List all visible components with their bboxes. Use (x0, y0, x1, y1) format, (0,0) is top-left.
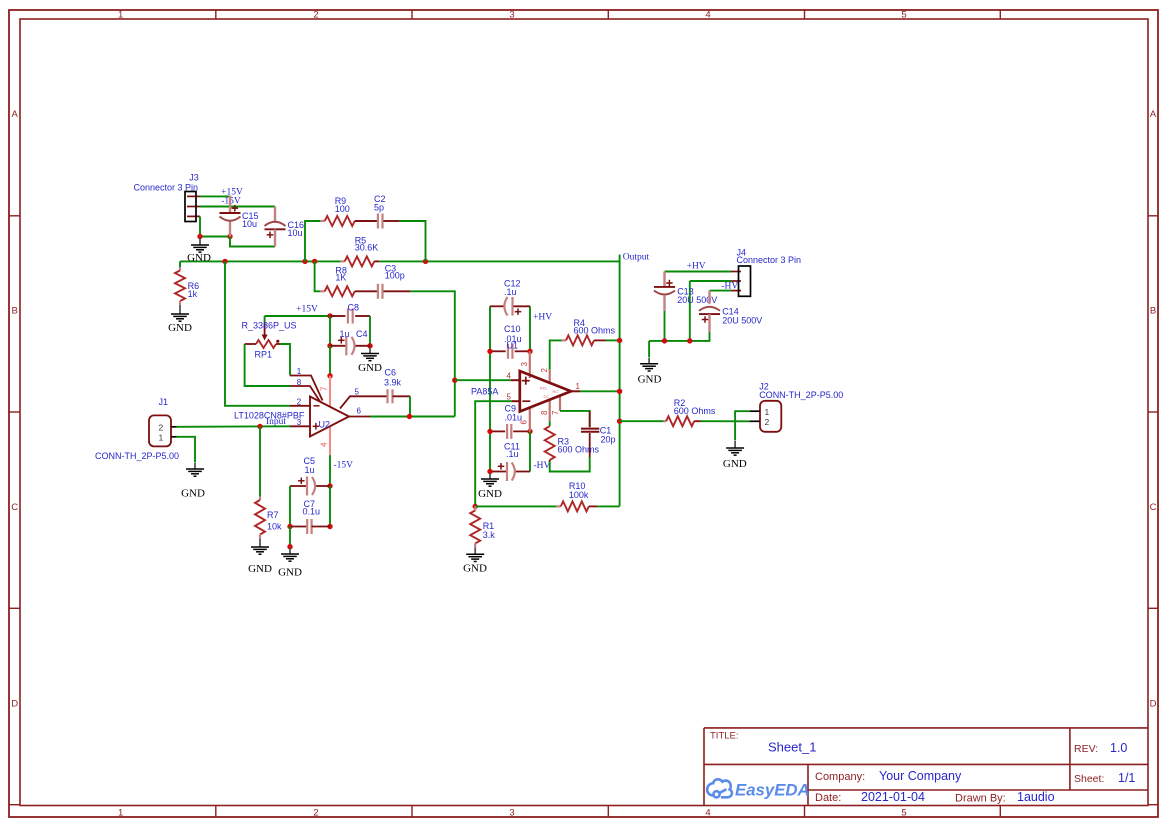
wire output rail vertical (619, 255, 621, 262)
svg-text:RCL: RCL (540, 386, 548, 390)
capacitor C13 plus sign (666, 282, 673, 284)
wire R8 branch vertical (315, 261, 320, 291)
svg-text:1: 1 (118, 807, 123, 818)
capacitor C14 bottom stub (708, 314, 710, 332)
junction C5 right (327, 483, 332, 488)
svg-text:6: 6 (520, 420, 529, 425)
capacitor C3 (377, 284, 379, 299)
svg-text:Sheet:: Sheet: (1074, 773, 1104, 785)
wire ground junction to C15 bottom (200, 236, 230, 238)
svg-text:Company:: Company: (815, 771, 865, 783)
capacitor C14 top stub (708, 291, 710, 304)
svg-text:600 Ohms: 600 Ohms (558, 444, 600, 454)
svg-text:7: 7 (551, 410, 560, 415)
svg-text:2: 2 (159, 423, 164, 433)
capacitor C13 plates (654, 286, 675, 288)
svg-text:D: D (1150, 699, 1157, 710)
capacitor C12 leads (490, 305, 504, 307)
junction U2 pin7 (327, 373, 332, 378)
junction C10 left (487, 349, 492, 354)
svg-text:A: A (1150, 109, 1157, 120)
capacitor C8 (330, 315, 345, 317)
wire C2 right down to rail (399, 221, 425, 261)
capacitor C9 plates (506, 424, 508, 439)
capacitor C15 plates (220, 212, 241, 214)
connector J1 body (149, 415, 171, 446)
capacitor C4 plus sign (338, 339, 345, 341)
resistor R10 (556, 505, 561, 507)
junction C10 right (527, 349, 532, 354)
op-amp U1 pin1 lead (571, 390, 580, 392)
capacitor C5 leads (290, 485, 306, 487)
svg-text:Output: Output (623, 253, 650, 263)
junction output rail at R4 (617, 338, 622, 343)
wire PA85A pin5 down to R1 node (475, 401, 511, 506)
junction above C7 ground (287, 544, 292, 549)
svg-text:R7: R7 (267, 510, 279, 520)
svg-text:D: D (11, 699, 18, 710)
wire output rail to R2 (620, 420, 664, 422)
capacitor C13 top stub (663, 272, 665, 287)
svg-text:5: 5 (355, 387, 360, 396)
junction C7 left (287, 524, 292, 529)
junction C7 right (327, 524, 332, 529)
svg-text:C: C (11, 502, 18, 513)
svg-text:Connector 3 Pin: Connector 3 Pin (133, 183, 198, 193)
op-amp U1 PA85A triangle (520, 371, 571, 412)
op-amp U1 plus mark (522, 380, 530, 382)
svg-text:600 Ohms: 600 Ohms (574, 326, 616, 336)
wire U2 pin4 to -15V stub (329, 455, 331, 486)
ground symbol at C7 (289, 548, 291, 554)
svg-text:20U 500V: 20U 500V (722, 316, 762, 326)
op-amp U2 plus mark (313, 425, 320, 427)
wire U2 output up to PA85A pin4 node (454, 380, 456, 416)
junction PA85A pin4 node (452, 378, 457, 383)
wire J4 pin3 -HV to C14 top (710, 290, 732, 292)
capacitor C14 plus sign (702, 319, 709, 321)
svg-text:-HV: -HV (534, 461, 551, 471)
svg-text:4: 4 (705, 807, 710, 818)
capacitor C7 (290, 526, 307, 528)
svg-text:600 Ohms: 600 Ohms (674, 406, 716, 416)
junction +15V at C8 left (327, 313, 332, 318)
connector J4 body (739, 266, 751, 296)
svg-text:CONN-TH_2P-P5.00: CONN-TH_2P-P5.00 (759, 390, 843, 400)
svg-text:GND: GND (638, 374, 662, 386)
svg-text:Sheet_1: Sheet_1 (768, 740, 816, 755)
svg-text:8: 8 (297, 378, 302, 387)
capacitor C11 plates (506, 462, 508, 481)
op-amp U2 pin4 line (329, 426, 331, 455)
ground symbol at C11 (489, 473, 491, 479)
ground symbol at J3 (199, 238, 201, 245)
svg-text:Connector 3 Pin: Connector 3 Pin (737, 255, 802, 265)
EasyEDA logo cloud icon (707, 779, 732, 797)
capacitor C15 top stub (229, 196, 231, 213)
svg-text:3: 3 (509, 807, 514, 818)
resistor R8 (320, 290, 325, 292)
svg-text:Input: Input (266, 417, 286, 427)
wire C3 right to PA85A pin4 node (410, 291, 455, 380)
capacitor C16 top stub (274, 207, 276, 223)
connector J3 body (185, 192, 196, 222)
svg-text:2021-01-04: 2021-01-04 (861, 790, 925, 804)
op-amp U2 pin3 lead (290, 425, 310, 427)
svg-text:1K: 1K (335, 273, 346, 283)
trimmer RP1 body (245, 343, 256, 345)
svg-text:+HV: +HV (533, 312, 552, 322)
resistor R5 (341, 260, 345, 262)
svg-text:Date:: Date: (815, 792, 841, 804)
svg-text:Your Company: Your Company (879, 769, 962, 783)
wire +15V branch down to U2 pin7 (329, 346, 331, 376)
svg-text:Drawn By:: Drawn By: (955, 793, 1006, 805)
op-amp U2 pin6 lead (349, 416, 370, 418)
svg-text:s: s (532, 372, 534, 376)
svg-text:GND: GND (478, 488, 502, 500)
svg-text:10k: 10k (267, 522, 282, 532)
ground symbol at J2 (734, 441, 736, 448)
capacitor C1 top lead (589, 411, 591, 427)
junction inverting rail to R8 branch (312, 259, 317, 264)
svg-text:3: 3 (520, 362, 529, 367)
capacitor C12 plates (504, 297, 507, 316)
capacitor C6 (386, 389, 388, 403)
ground symbol at R1 (474, 547, 476, 554)
capacitor C1 plates (581, 428, 599, 430)
capacitor C2 (377, 214, 379, 229)
svg-text:2: 2 (313, 807, 318, 818)
wire R1 node to R10 (475, 505, 556, 507)
svg-text:+15V: +15V (296, 305, 318, 315)
wire C6 right down to U2 output (409, 396, 411, 416)
wire R2 to J2 pin2 (701, 420, 750, 422)
capacitor C4 plates (345, 336, 347, 355)
svg-text:PA85A: PA85A (471, 386, 498, 396)
wire U2 output (370, 416, 455, 418)
junction output rail top at C2 right (423, 259, 428, 264)
svg-text:.1u: .1u (506, 449, 519, 459)
junction C9 left (487, 429, 492, 434)
svg-text:+HV: +HV (687, 261, 706, 271)
wire C8 right down to C4 right (369, 316, 371, 346)
wire C14 bottom to ground rail (649, 332, 709, 341)
resistor R4 (562, 339, 567, 341)
svg-text:C6: C6 (385, 367, 397, 377)
op-amp U1 pin5 lead (512, 400, 520, 402)
capacitor C10 leads (490, 350, 506, 352)
wire C15 bottom to C16 bottom (230, 237, 275, 247)
svg-text:7: 7 (320, 386, 329, 391)
svg-text:0.1u: 0.1u (303, 507, 321, 517)
connector J1 pin stubs (171, 426, 177, 428)
wire C13 bottom to ground rail (664, 311, 666, 341)
svg-text:.1u: .1u (504, 287, 517, 297)
svg-text:8: 8 (540, 410, 549, 415)
svg-text:10u: 10u (242, 219, 257, 229)
svg-text:RC: RC (553, 390, 559, 394)
op-amp U2 pin7 line (329, 376, 331, 407)
svg-text:5p: 5p (374, 202, 384, 212)
svg-text:2: 2 (297, 397, 302, 406)
svg-text:GND: GND (248, 563, 272, 575)
wire R7 top (259, 427, 261, 497)
capacitor C4 leads (330, 345, 346, 347)
capacitor C5 plates (306, 477, 308, 496)
op-amp U1 pin4 lead (511, 379, 520, 381)
border column dividers top (215, 10, 217, 19)
junction C11 left (487, 469, 492, 474)
junction U2 output at C6 (407, 414, 412, 419)
svg-text:GND: GND (187, 252, 211, 264)
svg-text:EasyEDA: EasyEDA (735, 781, 810, 800)
svg-text:6: 6 (357, 406, 362, 415)
svg-text:C4: C4 (356, 329, 368, 339)
svg-text:1: 1 (159, 433, 164, 443)
wire U2 pin2 to inverting rail (225, 261, 290, 405)
junction R1 node (473, 504, 478, 509)
wire right HV rail (C12 right down to C10 right) (529, 306, 531, 351)
svg-text:5: 5 (901, 10, 906, 21)
svg-text:B: B (12, 306, 18, 317)
svg-text:1.0: 1.0 (1110, 741, 1127, 755)
junction inverting rail to U2 pin2 branch (222, 259, 227, 264)
svg-text:GND: GND (168, 322, 192, 334)
svg-text:1: 1 (118, 10, 123, 21)
capacitor C5 plus sign (298, 480, 305, 482)
svg-text:1k: 1k (188, 289, 198, 299)
svg-text:J3: J3 (189, 173, 199, 183)
svg-text:C8: C8 (348, 303, 360, 313)
wire C5 right down to C7 right (329, 486, 331, 527)
capacitor C16 plus sign (267, 234, 274, 236)
wire R4 right to output rail (606, 339, 620, 341)
ground symbol at J1 (194, 463, 196, 469)
wire R5 right to output rail (379, 260, 620, 262)
wire to PA85A pin4 (455, 379, 511, 381)
svg-text:GND: GND (723, 458, 747, 470)
junction at C15 bottom (227, 234, 232, 239)
resistor R1 (474, 506, 476, 510)
wire C9 right down to C11 right (529, 431, 531, 471)
svg-text:1u: 1u (340, 329, 350, 339)
svg-text:20U 500V: 20U 500V (677, 295, 717, 305)
junction J1 pin2 to R7 (257, 424, 262, 429)
junction C4 left (327, 343, 332, 348)
wire -15V from J3 pin2 to C16 top (200, 206, 275, 208)
svg-text:1: 1 (576, 382, 581, 391)
wire PA85A pin2 up to R4 left (550, 340, 562, 369)
op-amp U2 triangle (310, 397, 349, 437)
junction output rail at PA85A pin1 (617, 389, 622, 394)
svg-text:2: 2 (313, 10, 318, 21)
capacitor C16 plates (265, 222, 286, 226)
wire +15V rail above RP1 (265, 315, 330, 317)
svg-text:2: 2 (765, 417, 770, 427)
junction ground rail at C13 (662, 338, 667, 343)
svg-text:GND: GND (358, 362, 382, 374)
svg-text:J1: J1 (159, 397, 169, 407)
ground symbol at C4 (369, 348, 371, 354)
svg-text:4: 4 (507, 371, 512, 380)
svg-text:CONN-TH_2P-P5.00: CONN-TH_2P-P5.00 (95, 451, 179, 461)
svg-text:5: 5 (901, 807, 906, 818)
svg-text:3: 3 (509, 10, 514, 21)
svg-text:B: B (1150, 306, 1156, 317)
wire R3 bottom to C1 bottom (550, 457, 590, 472)
border row dividers left (9, 215, 20, 217)
wire PA85A pin7 to C1 top (560, 411, 590, 427)
resistor R3 (545, 426, 555, 460)
capacitor C14 plates (699, 307, 720, 311)
junction inverting rail to R9 branch (302, 259, 307, 264)
resistor R9 (320, 220, 325, 222)
op-amp U1 minus mark (522, 400, 530, 402)
svg-text:1: 1 (297, 367, 302, 376)
wire inverting node rail (R6 top to R5 left) (180, 260, 341, 262)
wire PA85A pin8 to R3 top (549, 421, 551, 426)
junction output rail at R2 (617, 419, 622, 424)
svg-text:1audio: 1audio (1017, 790, 1055, 804)
svg-text:C: C (1150, 502, 1157, 513)
title block outline (704, 728, 1148, 806)
wire J4 pin1 +HV to C13 top (665, 271, 732, 273)
svg-text:GND: GND (181, 487, 205, 499)
svg-text:2: 2 (540, 368, 549, 373)
capacitor C16 bottom stub (274, 229, 276, 246)
svg-text:3.k: 3.k (483, 530, 496, 540)
op-amp U1 pin6 line (529, 408, 531, 432)
op-amp U1 pin7 line (559, 396, 561, 411)
wire +15V from J3 pin1 to C15 top (200, 195, 230, 197)
wire R10 right up output rail (597, 505, 620, 507)
svg-text:1u: 1u (305, 465, 315, 475)
svg-text:4: 4 (320, 442, 329, 447)
wire J1 pin1 to ground (177, 437, 195, 463)
svg-text:RP1: RP1 (255, 349, 273, 359)
ground symbol at R7 (259, 539, 261, 547)
svg-text:-15V: -15V (334, 461, 354, 471)
svg-text:20p: 20p (601, 435, 616, 445)
capacitor C11 plus sign (498, 465, 505, 467)
wire J1 pin2 to U2 pin3 (177, 425, 290, 428)
ground symbol at J4 (648, 358, 650, 364)
svg-text:REV:: REV: (1074, 743, 1098, 755)
svg-text:4: 4 (705, 10, 710, 21)
capacitor C15 bottom stub (229, 222, 231, 237)
capacitor C11 leads (490, 471, 506, 473)
op-amp U1 pin2 line (549, 370, 551, 384)
wire RP1 left to U2 pin8 (245, 344, 290, 386)
resistor R2 (664, 420, 667, 422)
wire R9 branch vertical (305, 221, 320, 261)
wire left HV rail (C12 left down to C11 left) (489, 306, 491, 471)
connector J4 pin stubs (731, 271, 741, 273)
svg-text:A: A (12, 109, 19, 120)
svg-text:C10: C10 (504, 324, 521, 334)
ground symbol below R6 (179, 305, 181, 314)
svg-text:100k: 100k (569, 490, 589, 500)
op-amp U2 pin1 lead (290, 376, 323, 401)
resistor R7 (259, 497, 261, 500)
capacitor C9 leads (490, 430, 505, 432)
capacitor C15 plus sign (232, 207, 239, 209)
connector J2 pin stubs (750, 410, 760, 412)
resistor R6 (179, 267, 181, 271)
wire ground rail to GND symbol (648, 341, 650, 357)
wire J4 pin2 to ground rail (690, 280, 731, 282)
border column dividers bottom (215, 806, 217, 818)
wire RP1 right to U2 pin1 (280, 344, 290, 376)
svg-text:10u: 10u (288, 228, 303, 238)
wire C7 left to ground (289, 527, 291, 547)
junction C4 right (367, 343, 372, 348)
connector J2 body (760, 401, 781, 432)
wire J2 pin1 to ground (735, 411, 750, 440)
svg-text:30.6K: 30.6K (355, 243, 379, 253)
op-amp U2 pin5 lead (340, 396, 387, 408)
svg-text:100p: 100p (385, 271, 405, 281)
svg-text:3.9k: 3.9k (384, 377, 402, 387)
svg-text:1: 1 (765, 407, 770, 417)
wire +15V down to C4 left (329, 316, 331, 346)
svg-text:GND: GND (463, 563, 487, 575)
wire J3 pin3 down to ground junction (199, 216, 201, 236)
op-amp U2 minus mark (314, 405, 320, 407)
op-amp U1 pin8 line (549, 400, 551, 422)
capacitor C1 bottom lead (589, 433, 591, 457)
svg-text:1/1: 1/1 (1118, 771, 1135, 785)
wire rail to R6 top (179, 261, 181, 267)
junction at J3 ground (197, 234, 202, 239)
svg-text:U2: U2 (319, 420, 331, 430)
junction C9 right (527, 429, 532, 434)
border row dividers right (1148, 215, 1158, 217)
capacitor C12 plus sign (515, 311, 522, 313)
op-amp U1 pin3 line (529, 351, 531, 378)
svg-text:s: s (532, 407, 534, 411)
svg-text:U1: U1 (507, 341, 519, 351)
capacitor C13 bottom stub (663, 295, 665, 311)
connector J3 pin stubs (187, 195, 200, 197)
junction ground rail at J4 pin2 (687, 338, 692, 343)
svg-text:CC: CC (544, 395, 550, 399)
svg-text:GND: GND (278, 567, 302, 579)
trimmer RP1 wiper arrow (264, 316, 266, 323)
op-amp U2 pin8 lead (290, 386, 320, 402)
wire PA85A output to rail (580, 390, 620, 392)
svg-text:100: 100 (335, 204, 350, 214)
op-amp U2 pin2 lead (290, 405, 310, 407)
wire C5 left down to C7 left (289, 486, 291, 527)
svg-text:TITLE:: TITLE: (710, 730, 739, 741)
capacitor C10 plates (507, 344, 509, 359)
svg-text:R_3386P_US: R_3386P_US (242, 321, 297, 331)
svg-text:-HV: -HV (721, 282, 738, 292)
